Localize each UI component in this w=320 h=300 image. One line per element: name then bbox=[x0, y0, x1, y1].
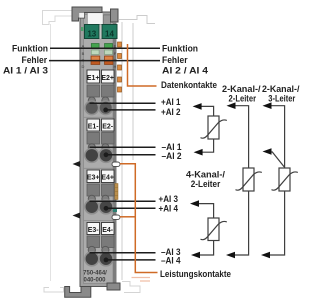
RTD sensor R4 curve bbox=[272, 172, 298, 190]
wire +AI4 with junction dot bbox=[106, 207, 156, 209]
power contact blade upper (white oval) bbox=[112, 162, 120, 166]
svg-text:E3-: E3- bbox=[88, 227, 100, 234]
wire slot E2+ bbox=[102, 85, 115, 97]
arrow to +AI3/+AI4 bbox=[190, 200, 199, 207]
wire +AI1 bbox=[90, 102, 156, 104]
clamp hole small E4+ bbox=[102, 195, 109, 202]
left power contact arrow upper bbox=[76, 163, 81, 165]
svg-text:Funktion: Funktion bbox=[12, 43, 48, 54]
RTD sensor R2 curve bbox=[201, 221, 227, 239]
svg-text:B: B bbox=[82, 51, 85, 56]
clamp hole small E2- bbox=[102, 144, 109, 151]
svg-text:E4-: E4- bbox=[102, 227, 114, 234]
address selector 14 bbox=[102, 25, 117, 39]
wire R3 bottom lead bbox=[233, 191, 249, 255]
clamp hole big E4+ bbox=[99, 200, 113, 214]
svg-text:2-Leiter: 2-Leiter bbox=[191, 178, 221, 189]
svg-text:+AI 2: +AI 2 bbox=[161, 106, 181, 117]
terminal label E4- bbox=[102, 223, 115, 235]
svg-text:Leistungskontakte: Leistungskontakte bbox=[160, 268, 231, 279]
svg-text:E4+: E4+ bbox=[101, 175, 114, 182]
wire slot E4+ bbox=[102, 184, 115, 196]
clamp hole big E1+ bbox=[85, 101, 99, 115]
svg-text:Fehler: Fehler bbox=[22, 54, 48, 65]
terminal label E3+ bbox=[87, 170, 100, 183]
terminal label E4+ bbox=[102, 170, 115, 183]
LED function channel1 (green) bbox=[91, 44, 99, 49]
orange power contact wire bbox=[120, 164, 158, 273]
svg-text:Funktion: Funktion bbox=[162, 43, 198, 54]
latch notch white bbox=[79, 13, 84, 18]
rail lock slider bottom-right bbox=[107, 283, 120, 290]
svg-text:–AI 4: –AI 4 bbox=[161, 254, 181, 265]
divider between selectors bbox=[99, 25, 101, 39]
orange power wire branch lower blade bbox=[120, 216, 135, 218]
svg-text:+AI 4: +AI 4 bbox=[159, 202, 179, 213]
RTD sensor R3 curve bbox=[236, 172, 262, 190]
clamp hole small E3+ bbox=[88, 195, 95, 202]
svg-text:Datenkontakte: Datenkontakte bbox=[161, 79, 217, 90]
svg-text:E2-: E2- bbox=[102, 123, 114, 130]
LED pale green channel1 bbox=[91, 50, 99, 55]
terminal label E2+ bbox=[102, 70, 115, 83]
orange data contact wire bbox=[128, 44, 157, 86]
arrow to -AI3/-AI4 (right) bbox=[261, 252, 270, 259]
arrow to -AI3/-AI4 (left) bbox=[191, 252, 200, 259]
arrow 3-Leiter top bbox=[263, 102, 272, 109]
terminal label E1- bbox=[87, 119, 100, 131]
wire R1 bottom lead bbox=[200, 139, 214, 152]
svg-text:3-Leiter: 3-Leiter bbox=[268, 93, 295, 104]
RTD sensor R2 (4-channel lower) rectangle bbox=[208, 218, 219, 241]
ghost outline adjacent module top-left latch bbox=[43, 11, 73, 25]
wire slot E2- bbox=[102, 133, 115, 145]
terminal label E2- bbox=[102, 119, 115, 131]
ghost outline adjacent module top-right bbox=[119, 16, 155, 281]
wire R2 top lead bbox=[197, 204, 214, 218]
arrow to +AI1/+AI2 bbox=[193, 103, 202, 110]
terminal label E1+ bbox=[87, 70, 100, 83]
arrow to -AI1/-AI2 bbox=[194, 149, 203, 156]
wire slot E1- bbox=[87, 133, 100, 145]
LED function channel2 (green) bbox=[105, 44, 113, 49]
svg-text:750-464/: 750-464/ bbox=[83, 271, 107, 277]
svg-text:13: 13 bbox=[87, 29, 96, 38]
module top-right ear bbox=[111, 9, 119, 22]
svg-text:AI 1 / AI 3: AI 1 / AI 3 bbox=[3, 65, 48, 76]
module top white notch bbox=[88, 13, 104, 24]
top step block bbox=[103, 15, 110, 24]
clamp hole big E3+ bbox=[85, 200, 99, 214]
RTD sensor R3 (2-channel 2-wire) rectangle bbox=[243, 168, 254, 191]
arrow 2-Leiter top bbox=[227, 102, 236, 109]
ghost outline adjacent module bottom-left foot bbox=[44, 288, 64, 293]
svg-text:AI 2 / AI 4: AI 2 / AI 4 bbox=[162, 65, 209, 76]
clamp hole small E1- bbox=[88, 144, 95, 151]
wire R4 bottom lead bbox=[268, 191, 285, 255]
svg-text:040-000: 040-000 bbox=[83, 278, 106, 284]
wire R2 bottom lead bbox=[198, 241, 214, 256]
wire +AI3 bbox=[90, 200, 156, 202]
clamp hole big E2- bbox=[99, 148, 113, 162]
clamp hole small E1+ bbox=[88, 97, 95, 104]
wire slot E3- bbox=[87, 236, 100, 248]
wire R4 third-wire branch bbox=[269, 152, 285, 168]
module body bbox=[80, 12, 116, 287]
small green marker top-left flank bbox=[81, 27, 84, 31]
svg-text:Fehler: Fehler bbox=[162, 54, 188, 65]
clamp hole big E2+ bbox=[99, 101, 113, 115]
wire -AI3 bbox=[90, 252, 156, 254]
gold power jumper strip bbox=[115, 184, 118, 200]
clamp hole small E4- bbox=[102, 246, 109, 253]
LED error channel2 (orange) bbox=[105, 56, 114, 65]
wire R4 top lead bbox=[269, 106, 285, 168]
clamp hole small E2+ bbox=[102, 97, 109, 104]
address selector 13 bbox=[85, 25, 100, 39]
wire -AI2 with junction dot bbox=[106, 154, 156, 156]
svg-text:E1+: E1+ bbox=[87, 75, 100, 82]
svg-text:E1-: E1- bbox=[88, 123, 100, 130]
module release latch (top hook) bbox=[72, 7, 102, 21]
wire R1 top lead bbox=[199, 106, 214, 116]
teal marker right flank bbox=[113, 209, 117, 213]
svg-text:H: H bbox=[114, 64, 117, 69]
terminal label E3- bbox=[87, 223, 100, 235]
module inner panel bbox=[84, 15, 114, 284]
RTD sensor R1 curve bbox=[201, 120, 227, 138]
wire R3 top lead bbox=[233, 106, 249, 168]
group separator grooves bbox=[84, 117, 114, 220]
ghost outline adjacent module left edge bbox=[50, 24, 52, 281]
clamp hole big E3- bbox=[85, 252, 99, 266]
LED error channel1 (orange) bbox=[91, 56, 100, 65]
power contact blade lower (white oval) bbox=[112, 215, 120, 219]
wire fehler line bbox=[49, 60, 160, 62]
wire slot E3+ bbox=[87, 184, 100, 196]
left power contact arrow lower bbox=[76, 215, 81, 217]
clamp hole small E3- bbox=[88, 246, 95, 253]
RTD sensor R1 (4-channel upper) rectangle bbox=[208, 116, 219, 139]
svg-text:E2+: E2+ bbox=[101, 75, 114, 82]
wire +AI2 with junction dot bbox=[106, 109, 156, 111]
wire -AI1 bbox=[90, 146, 156, 148]
wire slot E1+ bbox=[87, 85, 100, 97]
svg-text:14: 14 bbox=[105, 29, 114, 38]
wire -AI4 with junction dot bbox=[106, 259, 156, 261]
RTD sensor R4 (2-channel 3-wire) rectangle bbox=[279, 168, 290, 191]
clamp hole big E4- bbox=[99, 252, 113, 266]
wire funktion line bbox=[50, 47, 160, 49]
ghost power wire (faded) bottom-right bbox=[132, 278, 151, 282]
data contact squares right edge bbox=[118, 42, 122, 92]
svg-text:E3+: E3+ bbox=[87, 175, 100, 182]
ghost outline adjacent module bottom-right foot bbox=[122, 282, 140, 293]
svg-text:D: D bbox=[82, 64, 85, 69]
clamp hole big E1- bbox=[85, 148, 99, 162]
module right edge strip bbox=[113, 22, 117, 283]
LED pale green channel2 bbox=[105, 50, 113, 55]
arrow to -AI3/-AI4 (middle) bbox=[226, 252, 235, 259]
svg-text:–AI 2: –AI 2 bbox=[162, 150, 182, 161]
DIN rail foot bbox=[65, 287, 91, 298]
svg-text:2-Leiter: 2-Leiter bbox=[229, 93, 257, 104]
arrow 3-Leiter middle bbox=[263, 148, 272, 155]
wire slot E4- bbox=[102, 236, 115, 248]
